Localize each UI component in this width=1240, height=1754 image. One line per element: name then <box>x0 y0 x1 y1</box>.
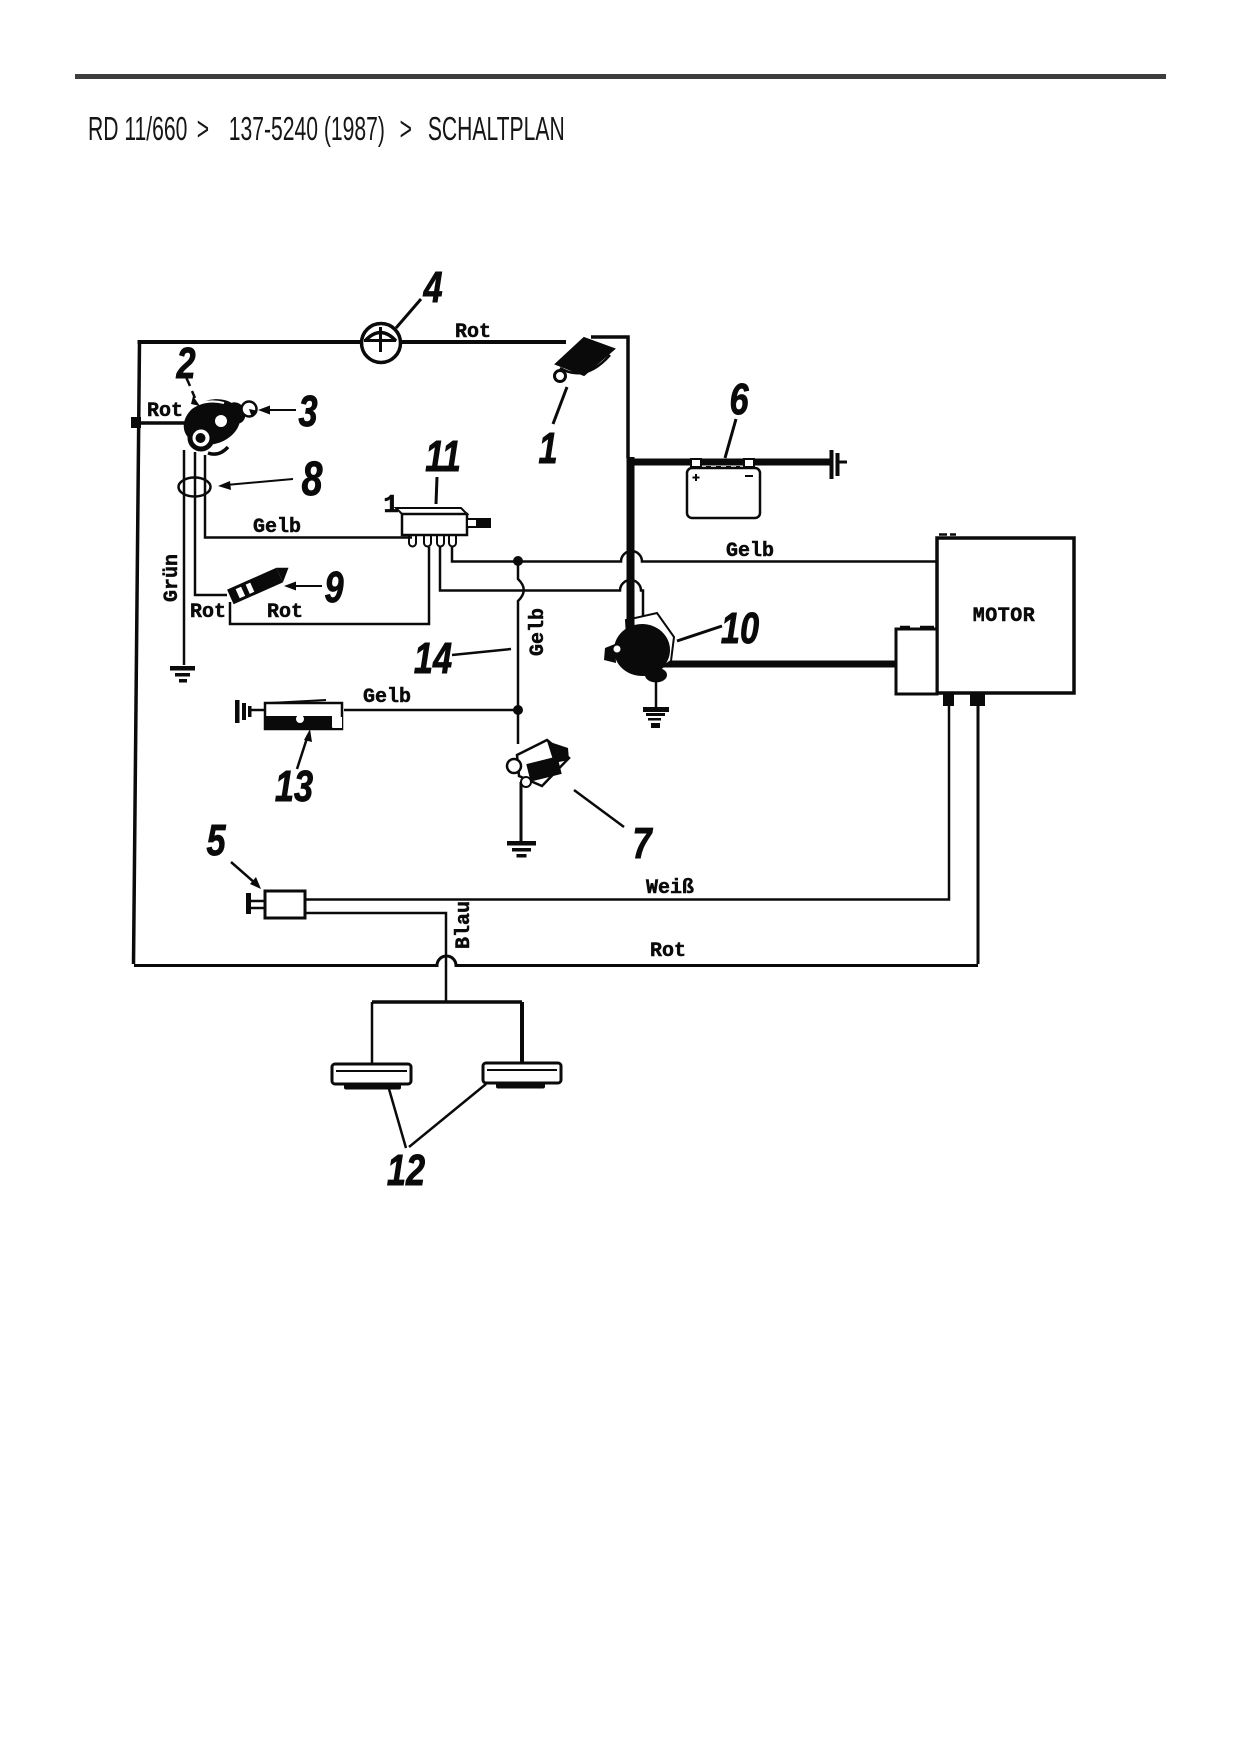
svg-text:Gelb: Gelb <box>363 686 411 709</box>
motor top edge ticks <box>939 533 956 536</box>
wire starter thick to solenoid <box>660 661 896 668</box>
wire right lamp drop <box>520 1002 524 1063</box>
relay 11 <box>396 508 490 547</box>
junction node Gelb/13 tee <box>513 705 523 715</box>
wire Gelb component13 to junction <box>344 709 518 712</box>
pointer line 14 <box>452 649 511 655</box>
wire component7 to ground <box>520 782 523 841</box>
wire Blau component5 to lamps <box>305 913 446 1002</box>
label 5 <box>206 816 226 865</box>
label 12 <box>387 1146 425 1195</box>
label 10 <box>721 604 759 653</box>
svg-text:Gelb: Gelb <box>726 540 774 563</box>
svg-text:9: 9 <box>324 563 343 612</box>
svg-text:14: 14 <box>414 634 452 683</box>
ammeter 4 <box>362 324 401 363</box>
svg-text:11: 11 <box>425 432 461 481</box>
wire relay pin3 to starter with hop over rail <box>440 547 643 624</box>
label 14 <box>414 634 452 683</box>
svg-text:5: 5 <box>206 816 226 865</box>
pointer line 11 <box>436 477 437 504</box>
label 7 <box>632 819 653 868</box>
component 1 switch <box>555 338 615 382</box>
label 4 <box>423 263 443 312</box>
svg-text:Rot: Rot <box>147 400 183 423</box>
wire Rot top horizontal left segment <box>138 340 363 344</box>
ground symbol component 7 <box>507 841 536 858</box>
wire Gruen to ground <box>183 450 186 665</box>
motor terminal Weiss <box>943 693 954 706</box>
wire starter ground lead <box>655 676 658 707</box>
svg-text:12: 12 <box>387 1146 425 1195</box>
svg-text:Grün: Grün <box>161 554 184 602</box>
svg-text:10: 10 <box>721 604 759 653</box>
svg-text:3: 3 <box>298 387 317 436</box>
wire Rot top-left rail <box>134 341 140 964</box>
svg-text:Blau: Blau <box>453 901 476 949</box>
svg-text:4: 4 <box>423 263 443 312</box>
label 1 component <box>538 424 557 473</box>
ground symbol starter <box>643 707 669 728</box>
svg-text:1: 1 <box>538 424 557 473</box>
svg-text:8: 8 <box>302 453 323 507</box>
connector 8 ellipse <box>179 478 211 497</box>
svg-text:Weiß: Weiß <box>646 877 694 900</box>
wire Rot top horizontal right segment <box>400 340 566 344</box>
svg-text:Rot: Rot <box>190 601 226 624</box>
svg-text:7: 7 <box>632 819 653 868</box>
motor box <box>937 538 1074 693</box>
svg-text:1: 1 <box>383 490 399 520</box>
label 11 <box>425 432 461 481</box>
pointer arrow 8 <box>226 479 293 485</box>
svg-text:MOTOR: MOTOR <box>973 605 1036 628</box>
wire Rot motor drop <box>977 706 980 964</box>
pointer line 1 <box>553 387 567 424</box>
svg-text:Rot: Rot <box>650 940 686 963</box>
component 7 switch <box>507 740 569 787</box>
junction node Gelb tee <box>513 556 523 566</box>
pointer line 4 <box>396 299 421 328</box>
label 9 <box>324 563 343 612</box>
svg-text:RD 11/660>137-5240 (1987)>SCHA: RD 11/660>137-5240 (1987)>SCHALTPLAN <box>88 110 565 147</box>
wire Gelb vertical junction to component 7 with hop <box>518 561 524 744</box>
label 3 <box>298 387 317 436</box>
label 6 <box>729 375 749 424</box>
svg-text:Gelb: Gelb <box>253 516 301 539</box>
wire left lamp drop <box>371 1002 374 1064</box>
lamp 12 left <box>332 1064 411 1090</box>
wire Weiss motor to component5 <box>305 706 949 900</box>
lamp 12 right <box>483 1063 561 1089</box>
svg-text:6: 6 <box>729 375 749 424</box>
pointer arrow 5 <box>231 862 255 883</box>
pointer dashed 2 <box>186 377 195 398</box>
wire Rot bottom with hop over Blau <box>134 956 978 966</box>
component 10 starter motor <box>604 612 674 683</box>
label 13 <box>275 762 313 811</box>
pointer line 10 <box>677 626 722 641</box>
wire Rot ignition stub <box>136 421 186 425</box>
svg-text:Rot: Rot <box>267 601 303 624</box>
wire component1 to right rail <box>591 337 628 458</box>
wire Gelb switch to relay <box>205 455 412 538</box>
svg-text:Gelb: Gelb <box>527 608 550 656</box>
solenoid box at motor <box>896 627 937 694</box>
svg-text:2: 2 <box>176 339 196 388</box>
battery 6 <box>687 450 840 518</box>
motor terminal Rot <box>970 693 985 706</box>
label 2 <box>176 339 196 388</box>
pointer arrow 3 <box>266 409 296 411</box>
wire battery connector stub <box>839 461 847 464</box>
junction node rail/ignition <box>131 417 141 428</box>
pointer line 13 <box>297 735 308 769</box>
wire lamp split bar <box>372 1000 522 1004</box>
component 3 bulb <box>242 402 257 417</box>
svg-text:13: 13 <box>275 762 313 811</box>
wire Gelb relay pin4 to motor with hop over rail <box>452 547 937 562</box>
label 8 <box>302 453 323 507</box>
component 5 connector <box>246 891 305 918</box>
wire Rot component9 to relay pin2 <box>230 547 429 624</box>
component 13 safety switch <box>235 700 342 729</box>
component 9 diode <box>227 563 293 604</box>
pointer arrow 9 <box>292 585 322 587</box>
wire thick battery feed <box>628 459 830 466</box>
pointer lines 12 <box>389 1089 406 1148</box>
pointer line 7 <box>574 790 624 827</box>
wire switch to component 9 <box>195 452 227 595</box>
svg-text:Rot: Rot <box>455 321 491 344</box>
ground symbol Gruen <box>170 666 195 683</box>
header rule <box>75 74 1166 79</box>
component 2 ignition switch <box>177 391 248 454</box>
pointer line 6 <box>725 419 736 458</box>
wire thick vertical rail to starter <box>627 457 635 652</box>
